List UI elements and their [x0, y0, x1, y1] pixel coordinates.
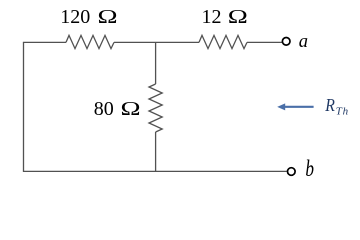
svg-text:Ω: Ω	[121, 98, 141, 120]
label 80 ohm	[94, 98, 141, 120]
label R_Th	[324, 95, 335, 115]
label 12 ohm	[202, 6, 248, 28]
wire: top-right segment to terminal a	[247, 41, 282, 43]
svg-text:R: R	[324, 95, 335, 115]
wire: bottom segment	[23, 170, 287, 172]
wire: middle vertical upper segment	[155, 42, 157, 84]
resistor R1 120 ohm	[66, 35, 114, 48]
svg-text:80: 80	[94, 98, 114, 120]
terminal a (open circle)	[282, 38, 290, 46]
svg-text:120: 120	[60, 6, 90, 28]
svg-text:h: h	[343, 105, 349, 117]
resistor R3 80 ohm (vertical)	[149, 84, 162, 132]
svg-text:Ω: Ω	[228, 6, 248, 28]
label 120 ohm	[60, 6, 117, 28]
node b label	[305, 157, 314, 182]
resistor R2 12 ohm	[199, 35, 247, 48]
svg-text:Ω: Ω	[98, 6, 118, 28]
wire: left vertical branch	[23, 42, 25, 171]
wire: top-left segment	[23, 41, 66, 43]
svg-text:12: 12	[202, 6, 222, 28]
arrow R_Th (pointing left)	[277, 103, 313, 110]
svg-text:b: b	[305, 157, 314, 182]
terminal b (open circle)	[288, 168, 296, 176]
wire: middle vertical lower segment	[155, 132, 157, 171]
svg-text:a: a	[299, 32, 308, 52]
wire: top middle segment	[114, 41, 199, 43]
